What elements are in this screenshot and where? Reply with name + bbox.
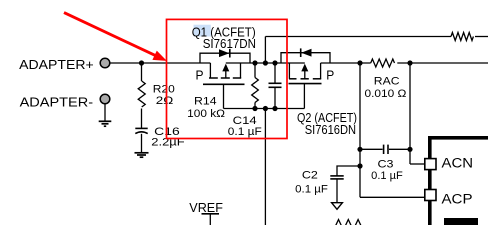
svg-text:0.1 µF: 0.1 µF xyxy=(371,170,403,182)
svg-text:VREF: VREF xyxy=(189,201,223,215)
transistor Q2 source stub left xyxy=(288,63,290,79)
wire main rail Q2 source to RAC xyxy=(321,62,371,64)
transistor Q1 source stub xyxy=(209,63,211,78)
svg-text:ACP: ACP xyxy=(442,192,473,208)
capacitor C14 xyxy=(269,82,282,84)
capacitor C3 plates xyxy=(383,145,385,154)
svg-text:R14: R14 xyxy=(194,96,217,108)
wire right sense vertical xyxy=(409,63,411,164)
transistor Q1 body arrow xyxy=(225,70,227,78)
svg-text:C2: C2 xyxy=(302,169,318,181)
capacitor C2 plates xyxy=(330,175,343,177)
terminal ADAPTER- xyxy=(100,94,110,104)
svg-text:ACN: ACN xyxy=(442,156,474,172)
ground ADAPTER- xyxy=(99,121,112,126)
ground C16 xyxy=(135,153,149,157)
annotation red arrow shaft xyxy=(64,13,156,56)
wire gate rail xyxy=(224,108,305,110)
wire ACN horizontal xyxy=(410,163,425,165)
resistor R14 bottom lead xyxy=(254,103,256,109)
diode Q2 triangle xyxy=(301,49,311,57)
terminal ADAPTER+ xyxy=(100,58,110,68)
node RAC right xyxy=(407,60,412,65)
wire R20 top lead xyxy=(141,63,143,81)
transistor Q2 drain stub xyxy=(320,63,322,79)
wire center vertical gate rail to bottom edge xyxy=(264,109,266,226)
svg-text:2Ω: 2Ω xyxy=(156,95,174,107)
svg-text:100 kΩ: 100 kΩ xyxy=(187,108,225,120)
transistor Q1 drain stub xyxy=(240,63,242,78)
node dots main rail xyxy=(252,60,257,65)
resistor R14 top lead xyxy=(254,63,256,78)
pin ACP square xyxy=(425,190,436,201)
ground C2 open triangle xyxy=(332,203,343,210)
capacitor C16 xyxy=(135,127,147,129)
diode Q2 cathode bar xyxy=(300,48,302,57)
transistor Q1 channel dashes xyxy=(209,77,241,79)
IC chip left edge xyxy=(428,136,432,225)
wire C16 to ground xyxy=(141,134,143,153)
svg-text:C3: C3 xyxy=(378,158,394,170)
capacitor C3 wires xyxy=(360,148,383,150)
diode Q1 triangle xyxy=(219,49,229,57)
node C2 junction xyxy=(357,163,362,168)
svg-text:0.010 Ω: 0.010 Ω xyxy=(365,88,407,100)
transistor Q2 channel dashes xyxy=(289,78,321,80)
node junction R20 branch xyxy=(139,60,144,65)
wire center vertical top to main rail xyxy=(264,37,266,64)
label Q1 highlight xyxy=(194,25,211,37)
wire ACP horizontal xyxy=(360,196,425,198)
IC chip top edge xyxy=(428,136,488,140)
resistor bottom clipped xyxy=(334,220,363,231)
transistor Q1 body diode loop xyxy=(200,53,250,63)
wire main rail ADAPTER+ to Q1 source stub xyxy=(110,62,210,64)
svg-text:0.1 µF: 0.1 µF xyxy=(295,184,328,196)
wire main rail Q1 drain to Q2 drain xyxy=(226,62,305,64)
capacitor C2 bottom lead xyxy=(336,179,338,203)
transistor Q1 gate plate xyxy=(203,83,245,85)
pin ACN square xyxy=(425,159,436,170)
resistor R14 xyxy=(252,78,259,103)
transistor Q2 gate plate xyxy=(289,83,322,85)
svg-text:P: P xyxy=(196,68,204,83)
svg-text:RAC: RAC xyxy=(374,76,400,88)
resistor top right xyxy=(451,33,473,41)
annotation red arrow head xyxy=(152,51,166,61)
wire Q1 gate lead xyxy=(223,84,225,108)
svg-text:R20: R20 xyxy=(153,84,175,96)
wire top right to edge xyxy=(475,36,488,38)
node C3 left xyxy=(357,147,362,152)
transistor Q2 body diode loop xyxy=(281,53,330,63)
wire left sense vertical xyxy=(359,63,361,197)
svg-text:SI7616DN: SI7616DN xyxy=(305,122,356,137)
node C3 right xyxy=(407,147,412,152)
wire main rail right of RAC to edge xyxy=(397,62,488,64)
wire top horizontal xyxy=(265,36,451,38)
wire Q2 gate lead xyxy=(303,84,305,109)
node dots gate rail xyxy=(252,106,257,111)
capacitor C2 stub wire xyxy=(337,166,360,176)
svg-text:ADAPTER-: ADAPTER- xyxy=(20,94,94,109)
capacitor C14 bottom lead xyxy=(274,87,276,108)
node RAC left xyxy=(357,60,362,65)
svg-text:P: P xyxy=(326,67,334,82)
label ACDET black box xyxy=(444,218,478,225)
wire ADAPTER- to ground xyxy=(104,104,106,121)
capacitor C14 top lead xyxy=(274,63,276,83)
annotation red box xyxy=(167,19,288,138)
svg-text:0.1 µF: 0.1 µF xyxy=(228,126,262,138)
svg-text:ADAPTER+: ADAPTER+ xyxy=(19,57,94,72)
diode Q1 cathode bar xyxy=(229,49,231,58)
svg-text:SI7617DN: SI7617DN xyxy=(203,36,256,51)
wire R20 to C16 xyxy=(141,109,143,129)
resistor R20 xyxy=(138,81,145,107)
resistor RAC xyxy=(371,59,395,67)
transistor Q2 body arrow xyxy=(304,70,306,79)
